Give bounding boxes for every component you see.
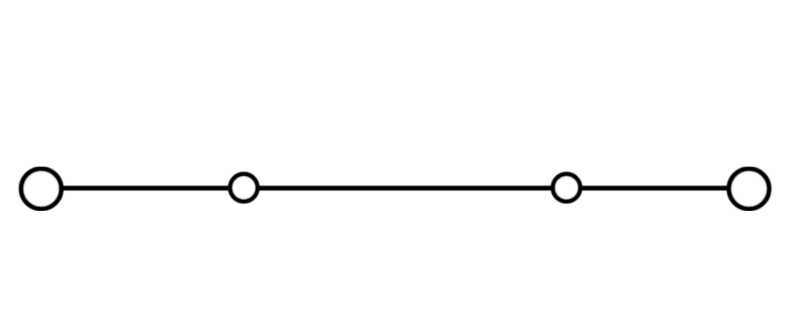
- node N1 (small open circle): [230, 174, 257, 201]
- terminal T2 (right open circle): [729, 169, 769, 209]
- terminal T1 (left open circle): [21, 169, 61, 209]
- node N2 (small open circle): [553, 174, 580, 201]
- wire: [41, 186, 749, 191]
